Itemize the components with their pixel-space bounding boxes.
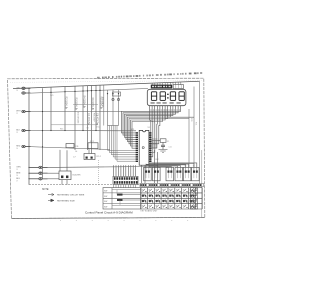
wire table link b: [119, 200, 121, 205]
svg-text:C4 473 Zw: C4 473 Zw: [87, 113, 90, 125]
svg-text:C11: C11: [169, 147, 172, 149]
junction dot J3: [74, 91, 75, 92]
display label bar (FLUORESCENT DISPLAY): [151, 85, 173, 89]
svg-text:13: 13: [16, 132, 18, 134]
svg-text:BLU: BLU: [16, 178, 20, 180]
wire top rail 1: [13, 81, 200, 88]
capacitor C10 plate: [161, 144, 165, 146]
svg-text:SW: SW: [104, 196, 107, 198]
connector P7: [39, 172, 42, 174]
wire right inner border: [201, 150, 203, 218]
wire fan left-route net 8: [132, 109, 163, 148]
wire IC bottom comb: [113, 165, 115, 176]
wire mid row 4 (ORN): [42, 166, 104, 169]
connector header J2: [113, 176, 138, 184]
connector solder strip right part: [140, 183, 204, 186]
wire elbow 3: [149, 164, 189, 167]
wire fan right-route net 4: [152, 109, 158, 148]
svg-text:BUZZER: BUZZER: [73, 175, 82, 177]
wire relay link: [88, 149, 90, 154]
svg-text:S5: S5: [185, 166, 187, 168]
svg-text:R6 100K Jb: R6 100K Jb: [91, 98, 94, 111]
wire mid row 5 (BRN): [42, 172, 59, 174]
relay RY2 pad 2: [91, 157, 93, 159]
display outline DS1: [147, 89, 186, 105]
junction dot J2: [64, 91, 65, 92]
wire dashed drop x=98.5: [98, 160, 100, 185]
wire elbow s4: [145, 164, 147, 168]
junction dot J6: [91, 90, 92, 91]
wire fan right-route net 2: [152, 109, 153, 157]
wire fan left-route net 3: [125, 109, 176, 137]
svg-text:PATTERNED SIDE: PATTERNED SIDE: [57, 199, 75, 202]
svg-text:R2 100K Jb: R2 100K Jb: [65, 97, 68, 110]
wire table link a: [116, 190, 118, 195]
svg-text:C3 104 W: C3 104 W: [101, 97, 103, 108]
junction dot J1: [50, 92, 51, 93]
wire fan right-route net 3: [152, 109, 155, 153]
junction bus B row 5: [42, 146, 43, 147]
wire right vertical 1: [188, 109, 190, 167]
wire mid row 3 (RED): [25, 147, 110, 150]
wire vertical drop 8: [99, 85, 101, 150]
wire IC right stub row: [152, 138, 158, 140]
wire IC bottom drop 2: [144, 165, 146, 183]
resistor R11 box: [66, 144, 74, 148]
buzzer pad 2: [66, 176, 68, 179]
wire solder strip rail left part: [29, 184, 140, 186]
buzzer pad 1: [61, 176, 63, 179]
junction bus A row 7: [28, 173, 29, 174]
svg-text:16: 16: [16, 175, 18, 177]
transistor Q1: [112, 98, 114, 100]
wire buzzer feed 1: [59, 150, 61, 171]
wire vertical drop 6: [91, 86, 93, 154]
keypad cell number specks: [145, 191, 194, 208]
wire left input 7: [42, 172, 48, 174]
svg-text:10: 10: [16, 90, 18, 92]
wire crystal to IC: [152, 140, 161, 142]
wire left input 4: [25, 130, 31, 132]
connector P6: [39, 166, 42, 168]
svg-text:ORN: ORN: [16, 167, 21, 169]
wire vertical drop 4: [82, 86, 84, 131]
junction bus B row 4: [42, 130, 43, 131]
switch SW4: [175, 167, 183, 180]
wire fan left-route net 1: [122, 109, 181, 133]
keypad matrix grid: [141, 188, 203, 209]
junction dot J8: [99, 90, 100, 91]
keypad cell dark glyphs rows 2-3: [142, 195, 194, 203]
wire table to grid 2: [123, 199, 141, 201]
buzzer BZ1 box: [59, 171, 71, 180]
svg-text:R9 220 F: R9 220 F: [93, 113, 95, 123]
wire vertical drop 1: [50, 87, 52, 131]
digit 8 (1): [151, 92, 156, 101]
junction row2 1: [50, 130, 51, 131]
colon: [167, 93, 169, 95]
wire fan left-route net 4: [126, 109, 173, 139]
wire display pin 7 route: [165, 109, 189, 119]
junction dot J4: [82, 90, 83, 91]
junction row2 4: [82, 130, 83, 131]
svg-text:X1: X1: [167, 141, 169, 143]
connector P3: [22, 110, 25, 112]
wire elbow s2: [146, 165, 155, 168]
wire fan left-route net 7: [131, 109, 166, 146]
IC U1 body: [139, 130, 149, 165]
wire mid row short: [73, 104, 98, 106]
header tiny text band above frame: [97, 72, 202, 79]
junction bus A row 3: [28, 111, 29, 112]
connector P1: [22, 87, 25, 89]
switch SW3: [166, 167, 174, 180]
junction bus B row 3: [42, 111, 43, 112]
wire elbow s3: [146, 164, 149, 167]
wire vertical drop 7: [95, 85, 97, 131]
junction bus A row 1: [28, 88, 29, 89]
display top pin ticks: [151, 83, 153, 85]
wire left input 3: [25, 111, 31, 113]
junction dot J5: [87, 90, 88, 91]
svg-text:D4: D4: [75, 151, 77, 153]
wire vertical drop extra: [103, 85, 105, 126]
switch SW1: [144, 167, 152, 180]
svg-text:R4 100K Jb: R4 100K Jb: [83, 96, 86, 109]
wire elbow s1: [146, 165, 158, 167]
wire fan left-route net 5: [128, 109, 171, 142]
solder strip dark pads: [140, 184, 201, 186]
svg-text:SW: SW: [104, 207, 107, 209]
relay RY2 pad 1: [86, 157, 88, 159]
wire under-IC rail: [104, 166, 150, 168]
wire mid row 2 (BLK): [25, 130, 136, 132]
wire elbow 8: [149, 166, 169, 168]
svg-text:P20: P20: [190, 118, 192, 121]
wire subcircuit vertical 2: [112, 90, 114, 126]
wire left bus A (x=29): [28, 88, 30, 184]
wire table to grid 3: [112, 204, 141, 206]
keypad hatched column: [191, 188, 198, 209]
frame inner top dotted line: [10, 81, 202, 83]
connector P4: [22, 129, 25, 131]
IC U1 right pin pads: [149, 132, 151, 133]
svg-text:SW: SW: [104, 201, 107, 203]
wire elbow 7: [149, 166, 171, 169]
frame bottom emphasis: [12, 217, 205, 218]
transistor Q2: [117, 98, 119, 100]
svg-text:S3: S3: [167, 166, 169, 168]
wire crystal-cap: [162, 142, 164, 145]
wire right vertical 2: [193, 87, 195, 168]
wire mid row 6 (BLU): [42, 178, 59, 180]
svg-text:S1: S1: [145, 166, 147, 168]
wire elbow 1: [149, 163, 197, 168]
svg-text:S4: S4: [176, 166, 178, 168]
resistor R21 body: [117, 194, 123, 196]
legend arrow 1: [48, 193, 54, 196]
svg-text:15: 15: [16, 169, 18, 171]
wire vertical drop 2: [64, 87, 66, 131]
connector CN2 subcircuit: [113, 92, 121, 96]
wire fan left-route net 6: [129, 109, 168, 144]
svg-text:R3 100K Jb: R3 100K Jb: [75, 98, 78, 111]
junction dot J7: [95, 90, 96, 91]
wire display pin 8 route: [168, 109, 194, 117]
wire fan right-route net 1: [150, 109, 152, 161]
wire left input 6: [42, 166, 48, 168]
wire IC right drop 1: [154, 150, 156, 183]
svg-text:SW: SW: [104, 191, 107, 193]
svg-text:17: 17: [16, 180, 18, 182]
svg-text:12: 12: [16, 113, 18, 115]
under-frame specks: [60, 220, 200, 222]
wire left pad comb lower rows: [108, 126, 136, 151]
wire buzzer lead 1: [61, 180, 63, 185]
table switch list: [103, 188, 141, 209]
svg-text:RED: RED: [16, 146, 21, 148]
connector P5: [22, 145, 25, 147]
crystal X1: [160, 139, 166, 143]
wire buzzer feed 2: [66, 150, 68, 171]
junction bus A row 4: [28, 130, 29, 131]
wire cap gnd: [162, 146, 164, 149]
display bar end box: [173, 85, 183, 89]
connector P2: [22, 92, 25, 94]
wire buzzer lead 2: [66, 180, 68, 185]
resistor R22 body: [117, 199, 123, 201]
switch SW6: [192, 167, 200, 180]
wire elbow 2: [149, 164, 194, 168]
svg-text:NOTE:: NOTE:: [42, 189, 49, 191]
relay RY1 box: [88, 143, 98, 149]
wire top rail 2: [29, 88, 148, 93]
wire left input 5: [25, 146, 31, 148]
digit 8 (3): [170, 92, 175, 101]
svg-text:14: 14: [16, 148, 18, 150]
wire IC right drop 2: [157, 152, 159, 183]
svg-text:KEY BOARD UNIT: KEY BOARD UNIT: [141, 210, 159, 213]
svg-text:S2: S2: [154, 166, 156, 168]
wire elbow 5: [149, 165, 180, 167]
display pins: [149, 106, 151, 109]
wire left input 1: [25, 87, 31, 89]
wire mid row 1 (WHT): [25, 111, 122, 113]
svg-text:D1 1SS133: D1 1SS133: [77, 112, 79, 124]
wire table to grid 1: [123, 194, 141, 196]
junction bus A row 6: [28, 167, 29, 168]
IC U1 left pin pads: [136, 132, 138, 133]
digit 8 (2): [160, 92, 165, 101]
switch SW2: [153, 167, 161, 180]
wire IC bottom drop 1: [141, 165, 143, 183]
IC U1 pin1 dot: [142, 147, 144, 149]
wire fan left-route net 2: [123, 109, 178, 135]
wire mid row extra: [51, 124, 98, 126]
junction subcircuit 3: [118, 93, 119, 94]
wire elbow 6: [149, 166, 178, 167]
junction bus A row 2: [28, 92, 29, 93]
wire subcircuit vertical 3: [118, 90, 120, 126]
wire elbow 4: [149, 165, 186, 168]
legend arrow 2: [48, 199, 54, 202]
junction row2 2: [64, 130, 65, 131]
digit 8 (4): [179, 92, 184, 101]
display pin labels: [150, 109, 180, 112]
display legend row: [151, 102, 155, 104]
ground symbol: [159, 150, 168, 153]
wire vertical drop 3: [74, 86, 76, 150]
wire subcircuit vertical 1: [107, 90, 109, 126]
svg-text:S6: S6: [193, 166, 195, 168]
svg-text:PATTERNED CIRCUIT WIRE: PATTERNED CIRCUIT WIRE: [57, 194, 85, 197]
wire fan right-route net 5: [152, 109, 160, 144]
junction subcircuit 2: [112, 93, 113, 94]
wire left input 8: [42, 178, 48, 180]
svg-text:R15: R15: [60, 128, 63, 130]
wire left bus B (x=42.5): [42, 88, 44, 179]
keypad key slashes: [142, 189, 193, 208]
svg-text:Control Panel Circuit A-9 DIAG: Control Panel Circuit A-9 DIAGRAM: [85, 211, 133, 215]
junction subcircuit 1: [107, 93, 108, 94]
wire table to grid 0: [112, 189, 141, 191]
switch SW5: [183, 167, 191, 180]
relay RY2 box: [84, 154, 95, 160]
svg-text:P21: P21: [195, 122, 197, 125]
wire right vertical 3: [199, 81, 201, 185]
svg-text:BRN: BRN: [16, 172, 21, 174]
junction bus A row 8: [28, 178, 29, 179]
junction row2 7: [95, 130, 96, 131]
svg-text:X1: X1: [148, 127, 150, 129]
wire subcircuit bottom: [108, 125, 119, 127]
connector P8: [39, 178, 42, 180]
border frame: [8, 78, 205, 218]
junction bus A row 5: [28, 146, 29, 147]
wire left input 2: [25, 92, 31, 94]
svg-text:C6 473 Zw: C6 473 Zw: [96, 113, 99, 125]
wire vertical drop 5: [87, 86, 89, 150]
